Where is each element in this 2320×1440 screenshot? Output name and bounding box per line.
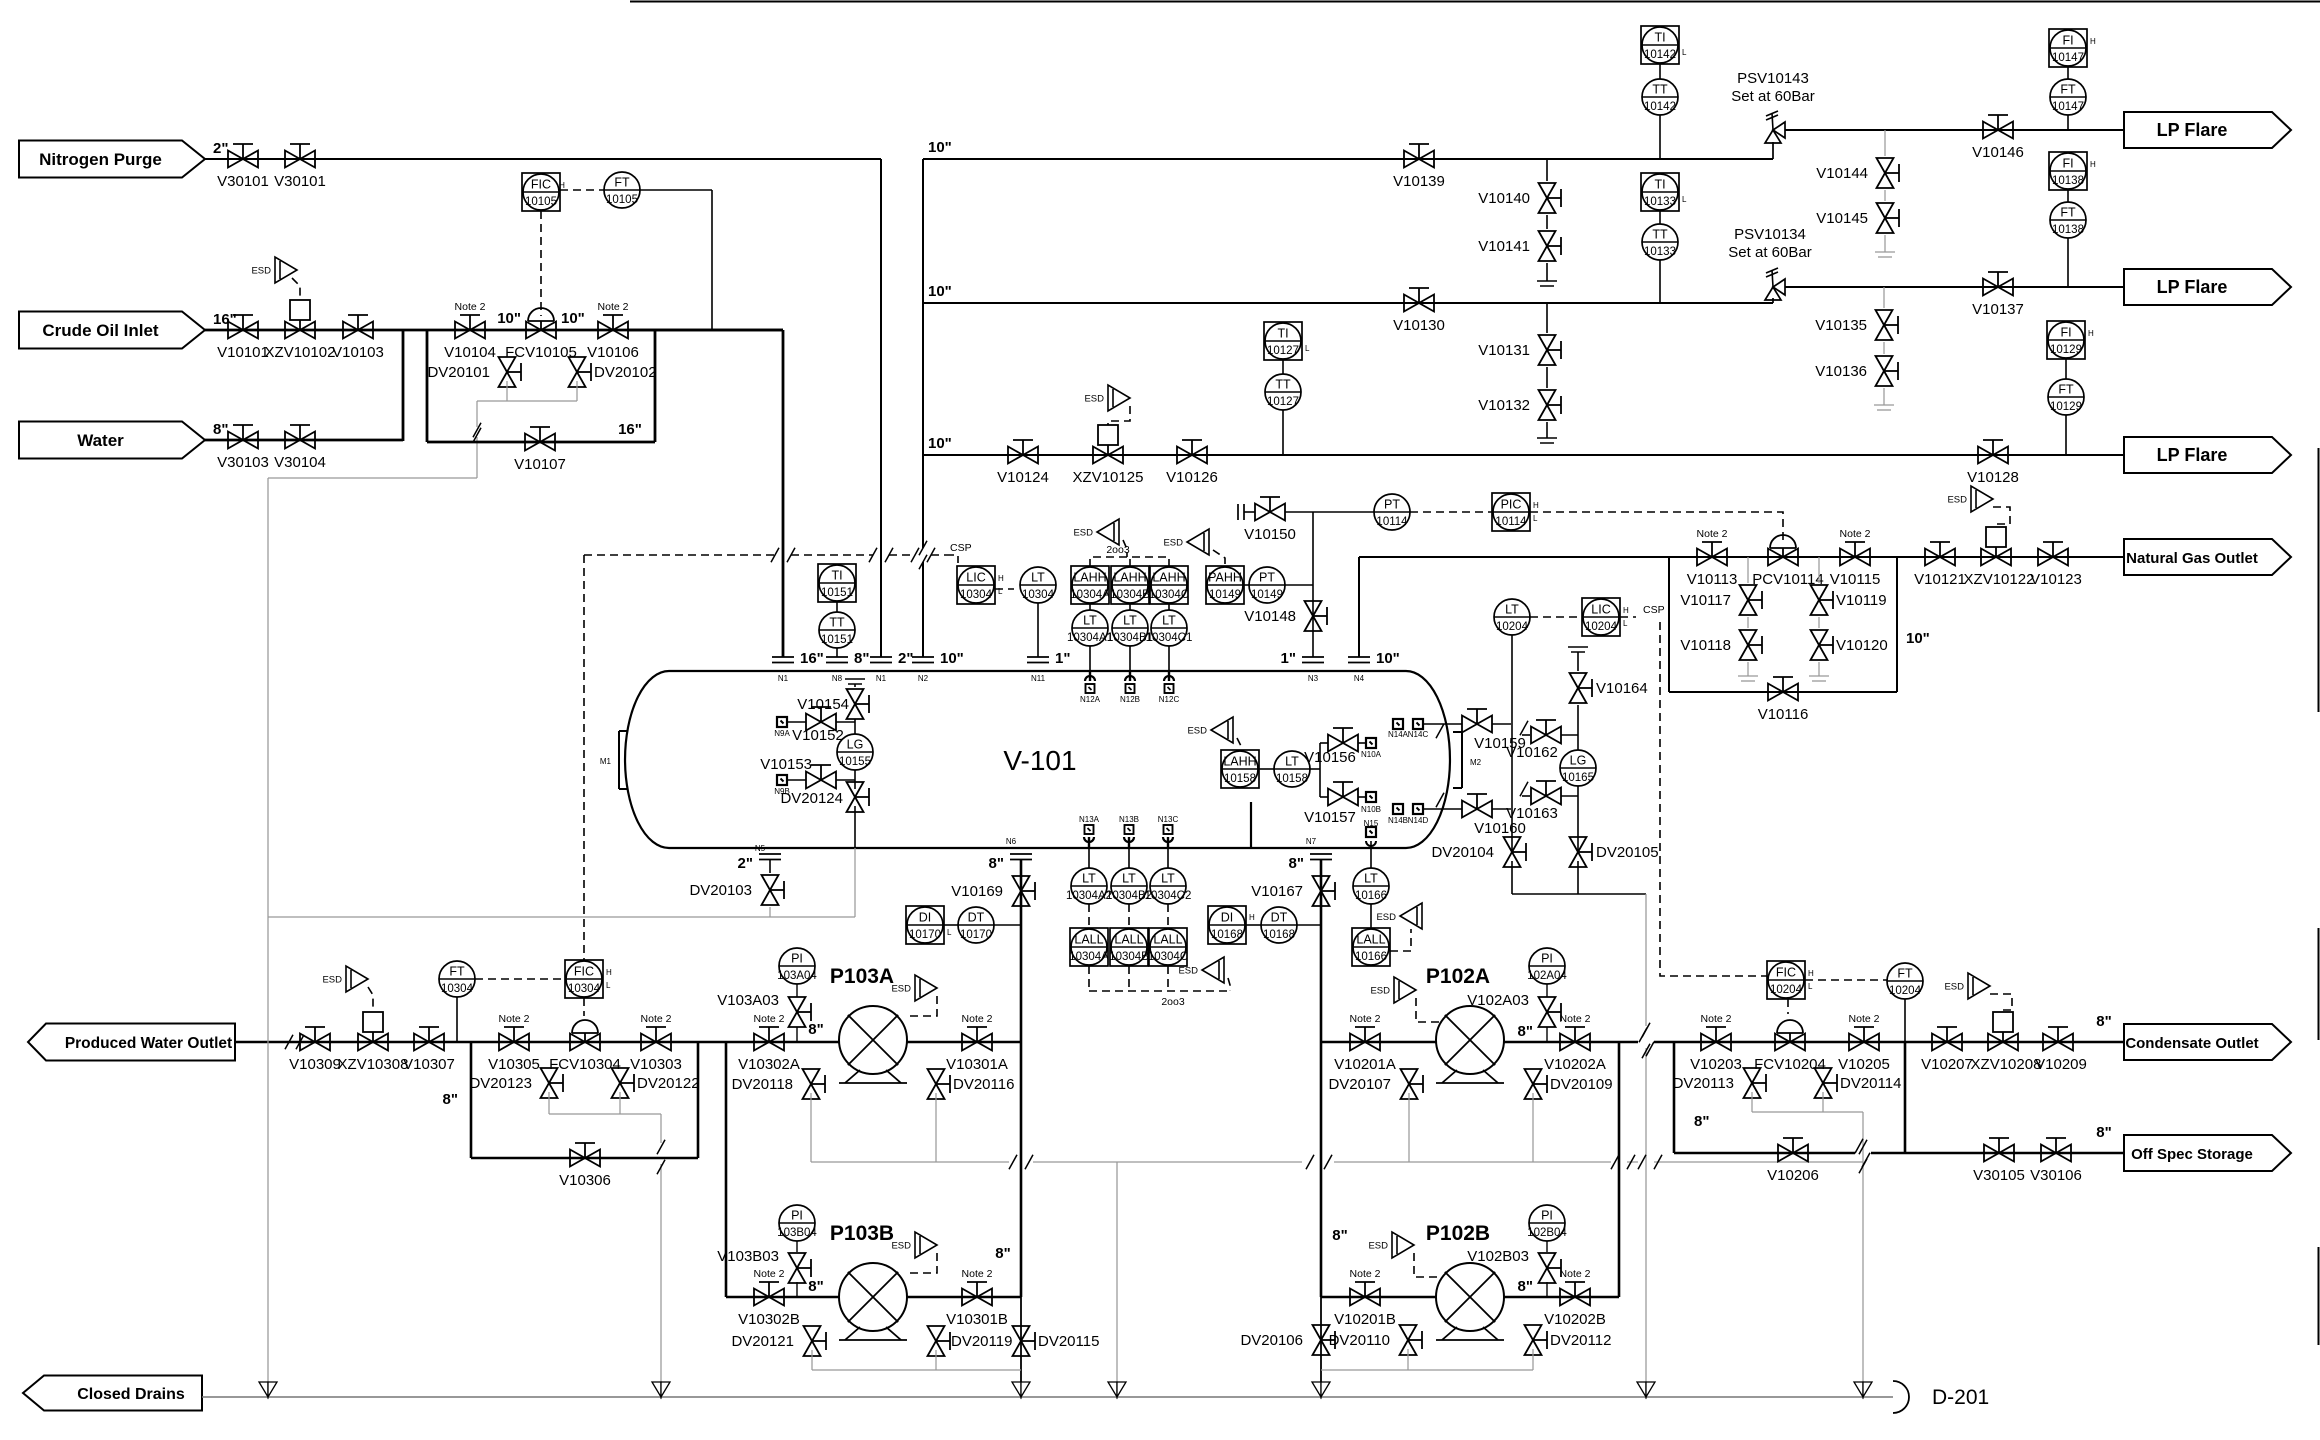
wire rejoin riser to condensate main xyxy=(1904,1042,1907,1153)
svg-text:10149: 10149 xyxy=(1251,589,1283,601)
valve DV20103 xyxy=(762,875,779,890)
svg-text:ESD: ESD xyxy=(1947,495,1967,506)
stub N14D xyxy=(1413,804,1423,814)
nozzle N6 8in flange xyxy=(1010,853,1032,855)
instrument LT10158 xyxy=(1274,751,1310,787)
vessel V-101 shell xyxy=(669,670,1406,672)
svg-text:10204: 10204 xyxy=(1585,621,1618,633)
svg-text:L: L xyxy=(1682,195,1687,204)
valve DV20122 xyxy=(612,1068,629,1083)
instrument LG10155 xyxy=(837,734,873,770)
svg-text:ESD: ESD xyxy=(322,975,342,986)
wire PCV manifold box xyxy=(1668,557,1670,692)
stub N14A xyxy=(1393,719,1403,729)
svg-text:Note 2: Note 2 xyxy=(1701,1013,1732,1025)
wire PT10149 to N3 riser xyxy=(1285,584,1313,586)
svg-text:LAHH: LAHH xyxy=(1152,571,1185,585)
svg-text:V10157: V10157 xyxy=(1304,809,1356,826)
svg-text:XZV10208: XZV10208 xyxy=(1971,1056,2042,1073)
svg-text:LALL: LALL xyxy=(1114,933,1143,947)
flow arrow Produced Water Outlet xyxy=(28,1024,235,1061)
valve V10152 xyxy=(806,714,821,731)
svg-text:V10119: V10119 xyxy=(1836,592,1887,609)
valve V103B03 xyxy=(789,1253,806,1268)
svg-text:H: H xyxy=(2090,160,2096,169)
svg-text:H: H xyxy=(559,181,565,190)
instrument TT10142 xyxy=(1642,79,1678,115)
stub N14C xyxy=(1413,719,1423,729)
svg-text:10": 10" xyxy=(928,435,952,452)
svg-text:ESD: ESD xyxy=(1163,538,1183,549)
svg-text:N11: N11 xyxy=(1031,674,1046,683)
svg-text:V10164: V10164 xyxy=(1596,680,1648,697)
svg-text:LAHH: LAHH xyxy=(1113,571,1146,585)
svg-text:10": 10" xyxy=(1906,630,1930,647)
svg-text:10204: 10204 xyxy=(1496,621,1529,633)
svg-text:Condensate Outlet: Condensate Outlet xyxy=(2125,1035,2258,1052)
svg-text:M2: M2 xyxy=(1470,758,1482,767)
svg-text:10170: 10170 xyxy=(960,929,992,941)
valve V10139 xyxy=(1404,151,1419,168)
instrument DI10168 xyxy=(1208,906,1246,944)
svg-text:10170: 10170 xyxy=(909,929,941,941)
svg-text:V10307: V10307 xyxy=(403,1056,455,1073)
instrument PAHH10149 xyxy=(1206,566,1244,604)
svg-text:ESD: ESD xyxy=(1073,528,1093,539)
svg-text:FCV10304: FCV10304 xyxy=(549,1056,621,1073)
valve V102A03 xyxy=(1539,997,1556,1012)
svg-text:V10118: V10118 xyxy=(1680,637,1731,654)
instrument TI10133 xyxy=(1641,173,1679,211)
svg-text:DV20104: DV20104 xyxy=(1431,844,1494,861)
svg-text:N9A: N9A xyxy=(774,729,790,738)
valve V10207 xyxy=(1932,1034,1947,1051)
valve V10156 xyxy=(1328,735,1343,752)
svg-text:10142: 10142 xyxy=(1644,101,1676,113)
svg-text:10147: 10147 xyxy=(2052,52,2084,64)
wire P102B row xyxy=(1321,1296,1619,1299)
instrument PI103B04 xyxy=(779,1205,815,1241)
valve V10124 xyxy=(1008,447,1023,464)
svg-text:P103B: P103B xyxy=(830,1222,894,1245)
wire crude bypass down-leg xyxy=(426,330,429,442)
svg-text:FT: FT xyxy=(1897,967,1913,981)
valve V30101 a xyxy=(228,151,243,168)
wire condensate bypass / off spec line xyxy=(1674,1152,1855,1155)
svg-text:Note 2: Note 2 xyxy=(1840,528,1871,540)
valve DV20123 xyxy=(541,1068,558,1083)
ESD pilot P103A xyxy=(915,975,937,1001)
svg-text:FT: FT xyxy=(2060,206,2076,220)
svg-text:V10306: V10306 xyxy=(559,1172,611,1189)
svg-text:H: H xyxy=(1623,606,1629,615)
svg-text:ESD: ESD xyxy=(1187,726,1207,737)
valve V10131 xyxy=(1546,303,1548,333)
wire crude line to drop xyxy=(628,329,783,332)
svg-text:N12A: N12A xyxy=(1080,695,1101,704)
valve V10136 xyxy=(1883,342,1885,354)
svg-text:10142: 10142 xyxy=(1644,49,1676,61)
svg-text:ESD: ESD xyxy=(1178,966,1198,977)
svg-text:LT: LT xyxy=(1505,603,1519,617)
instrument TT10127 xyxy=(1265,374,1301,410)
wire produced water main xyxy=(235,1041,726,1044)
wire 10in riser to N2 xyxy=(922,159,924,548)
svg-text:DV20112: DV20112 xyxy=(1550,1332,1611,1349)
svg-text:10129: 10129 xyxy=(2050,344,2082,356)
wire bypass rejoin riser xyxy=(697,1042,700,1158)
svg-text:LT: LT xyxy=(1285,755,1299,769)
wire condensate main xyxy=(1619,1041,1638,1044)
svg-text:TI: TI xyxy=(831,569,842,583)
svg-text:N10A: N10A xyxy=(1361,750,1382,759)
svg-text:V10203: V10203 xyxy=(1690,1056,1742,1073)
svg-text:H: H xyxy=(2088,329,2094,338)
svg-text:PSV10143: PSV10143 xyxy=(1737,70,1809,87)
valve V10137 xyxy=(1983,279,1998,296)
svg-text:10304: 10304 xyxy=(1022,589,1055,601)
svg-text:FIC: FIC xyxy=(1776,966,1796,980)
svg-text:V30103: V30103 xyxy=(217,454,269,471)
valve FCV10204 control valve xyxy=(1775,1034,1790,1051)
wire TT10142 tap xyxy=(1659,115,1661,159)
svg-text:10158: 10158 xyxy=(1276,773,1308,785)
instrument LT10304B2 xyxy=(1128,847,1130,868)
svg-text:10": 10" xyxy=(928,139,952,156)
svg-text:10204: 10204 xyxy=(1770,984,1803,996)
svg-text:FI: FI xyxy=(2062,34,2073,48)
svg-text:8": 8" xyxy=(2096,1013,2111,1030)
valve V10119 xyxy=(1818,557,1820,583)
valve V10117 xyxy=(1747,557,1749,583)
svg-text:V10156: V10156 xyxy=(1304,749,1356,766)
instrument LIC10204 xyxy=(1582,598,1620,636)
svg-text:V10126: V10126 xyxy=(1166,469,1218,486)
valve V10162 xyxy=(1522,734,1530,736)
instrument FI10147 xyxy=(2049,29,2087,67)
valve V10121 xyxy=(1925,549,1940,566)
svg-text:M1: M1 xyxy=(600,757,612,766)
svg-text:10138: 10138 xyxy=(2052,224,2084,236)
ESD pilot P102B xyxy=(1392,1232,1414,1258)
svg-text:V10305: V10305 xyxy=(488,1056,540,1073)
drain tie-in triangle x268 xyxy=(259,1382,268,1397)
instrument TI10127 xyxy=(1264,322,1302,360)
svg-text:V10301A: V10301A xyxy=(946,1056,1008,1073)
svg-text:V10135: V10135 xyxy=(1815,317,1867,334)
svg-text:V10207: V10207 xyxy=(1921,1056,1973,1073)
svg-text:V30104: V30104 xyxy=(274,454,326,471)
wire blowdown row3 10in line xyxy=(923,454,2124,456)
svg-text:V10140: V10140 xyxy=(1478,190,1530,207)
svg-text:10133: 10133 xyxy=(1644,196,1676,208)
svg-text:2": 2" xyxy=(213,140,228,157)
svg-text:DI: DI xyxy=(919,911,932,925)
signal CSP from FIC10304 to LIC10304 xyxy=(584,554,775,556)
nozzle N4 10in flange xyxy=(1348,656,1370,658)
svg-text:Note 2: Note 2 xyxy=(1350,1013,1381,1025)
svg-text:N2: N2 xyxy=(918,674,929,683)
svg-text:2oo3: 2oo3 xyxy=(1161,996,1185,1008)
svg-text:PSV10134: PSV10134 xyxy=(1734,226,1806,243)
svg-text:FT: FT xyxy=(449,965,465,979)
instrument FIC10204 xyxy=(1767,961,1805,999)
wire FT10147 tap xyxy=(2067,115,2069,130)
svg-text:TI: TI xyxy=(1654,178,1665,192)
wire N7 riser to drains xyxy=(1320,1297,1322,1382)
svg-text:DV20106: DV20106 xyxy=(1240,1332,1303,1349)
svg-text:10304C1: 10304C1 xyxy=(1146,632,1193,644)
nozzle stub N13A xyxy=(1088,837,1090,847)
valve FCV10304 control valve xyxy=(570,1034,585,1051)
valve V30101 b xyxy=(285,151,300,168)
valve V10120 xyxy=(1818,617,1820,628)
svg-text:V10137: V10137 xyxy=(1972,301,2024,318)
svg-text:10114: 10114 xyxy=(1376,516,1408,528)
svg-text:LALL: LALL xyxy=(1074,933,1103,947)
svg-text:Note 2: Note 2 xyxy=(455,301,486,313)
wire PI102B04 tap xyxy=(1546,1282,1548,1297)
svg-text:N14B: N14B xyxy=(1388,816,1408,825)
wire P103 pumpB drains xyxy=(811,1350,813,1370)
svg-text:L: L xyxy=(1682,48,1687,57)
svg-text:V10209: V10209 xyxy=(2035,1056,2087,1073)
valve XZV10122 xyxy=(1981,549,1996,566)
svg-text:10151: 10151 xyxy=(821,587,853,599)
drain tie-in triangle x1322 xyxy=(1312,1382,1321,1397)
svg-text:V10107: V10107 xyxy=(514,456,566,473)
wire LT10304B1 to nozzle N12B xyxy=(1129,646,1131,671)
flow arrow Natural Gas Outlet xyxy=(2124,539,2291,575)
svg-text:10304B: 10304B xyxy=(1110,589,1150,601)
vent below V10141 xyxy=(1546,263,1548,281)
svg-text:2": 2" xyxy=(738,855,753,872)
svg-text:Note 2: Note 2 xyxy=(641,1013,672,1025)
svg-text:10304C: 10304C xyxy=(1149,589,1189,601)
svg-text:V10150: V10150 xyxy=(1244,526,1296,543)
instrument LT10304 xyxy=(1020,567,1056,603)
svg-text:V10162: V10162 xyxy=(1506,744,1558,761)
off-page connector D-201 xyxy=(1893,1381,1909,1413)
svg-text:V10106: V10106 xyxy=(587,344,639,361)
wire LT10158 to V10156 V10157 xyxy=(1310,768,1320,770)
instrument TT10151 xyxy=(819,612,855,648)
svg-text:ESD: ESD xyxy=(1084,394,1104,405)
valve V10306 xyxy=(570,1150,585,1167)
instrument PI102B04 xyxy=(1529,1205,1565,1241)
svg-text:DV20110: DV20110 xyxy=(1329,1332,1390,1349)
svg-text:1": 1" xyxy=(1281,650,1296,667)
instrument FIC10304 xyxy=(565,960,603,998)
svg-text:10": 10" xyxy=(1376,650,1400,667)
wire PI103B04 tap xyxy=(796,1282,798,1297)
drain tie-in triangle x1863 xyxy=(1854,1382,1863,1397)
valve DV20102 drain xyxy=(569,357,586,372)
valve DV20114 xyxy=(1815,1068,1832,1083)
valve DV20113 xyxy=(1744,1068,1761,1083)
valve V10118 xyxy=(1747,617,1749,628)
wire LT10204 standpipe xyxy=(1511,635,1513,852)
wire P102A pump drains xyxy=(1408,1093,1410,1162)
instrument TT10133 xyxy=(1642,224,1678,260)
valve V10157 xyxy=(1328,789,1343,806)
svg-text:16": 16" xyxy=(800,650,824,667)
svg-text:8": 8" xyxy=(213,421,228,438)
valve V10146 xyxy=(1983,122,1998,139)
signal FIC10204 to FT10204 xyxy=(1805,979,1887,981)
svg-text:TT: TT xyxy=(1275,378,1291,392)
svg-text:DV20124: DV20124 xyxy=(780,790,843,807)
svg-text:V10123: V10123 xyxy=(2030,571,2082,588)
svg-text:FCV10105: FCV10105 xyxy=(505,344,577,361)
instrument LT10304B1 xyxy=(1112,610,1148,646)
wire DT10168 to N7 riser xyxy=(1297,924,1321,926)
svg-text:DV20105: DV20105 xyxy=(1596,844,1659,861)
valve XZV10102 xyxy=(285,322,300,339)
svg-text:V10101: V10101 xyxy=(217,344,269,361)
svg-text:LT: LT xyxy=(1364,872,1378,886)
svg-text:103A04: 103A04 xyxy=(777,970,817,982)
svg-text:V10117: V10117 xyxy=(1680,592,1731,609)
svg-text:10133: 10133 xyxy=(1644,246,1676,258)
svg-text:V10201A: V10201A xyxy=(1334,1056,1396,1073)
instrument LAHH10304A xyxy=(1071,566,1109,604)
wire P102A pump drain header west xyxy=(1117,1161,1302,1163)
svg-text:V103A03: V103A03 xyxy=(717,992,779,1009)
svg-text:10127: 10127 xyxy=(1267,396,1299,408)
vent below V10145 xyxy=(1884,235,1886,252)
svg-text:10114: 10114 xyxy=(1495,516,1527,528)
flow arrow Condensate Outlet xyxy=(2124,1024,2291,1060)
svg-text:CSP: CSP xyxy=(950,542,972,554)
svg-text:103B04: 103B04 xyxy=(777,1227,817,1239)
wire DT10170 to suction riser xyxy=(994,924,1021,926)
svg-text:Water: Water xyxy=(77,431,124,450)
instrument LT10304C2 xyxy=(1167,847,1169,868)
svg-text:V10103: V10103 xyxy=(332,344,384,361)
svg-text:V10152: V10152 xyxy=(792,727,844,744)
svg-text:10": 10" xyxy=(928,283,952,300)
wire FT10138 tap xyxy=(2067,238,2069,287)
svg-text:N12B: N12B xyxy=(1120,695,1140,704)
valve DV20110 xyxy=(1400,1325,1417,1340)
instrument FT10138 xyxy=(2050,202,2086,238)
svg-text:10304C: 10304C xyxy=(1148,951,1188,963)
svg-text:H: H xyxy=(606,968,612,977)
svg-text:8": 8" xyxy=(1332,1227,1347,1244)
wire closed drains header xyxy=(202,1396,1893,1398)
svg-text:DV20119: DV20119 xyxy=(951,1333,1012,1350)
svg-text:10": 10" xyxy=(940,650,964,667)
svg-text:8": 8" xyxy=(1518,1278,1533,1295)
svg-text:V10132: V10132 xyxy=(1478,397,1530,414)
flow arrow Crude Oil Inlet xyxy=(19,312,205,349)
valve DV20105 xyxy=(1570,837,1587,852)
valve DV20115 xyxy=(1013,1326,1030,1341)
svg-text:N3: N3 xyxy=(1308,674,1319,683)
svg-text:10304B: 10304B xyxy=(1109,951,1149,963)
svg-text:V10104: V10104 xyxy=(444,344,496,361)
svg-text:ESD: ESD xyxy=(1376,912,1396,923)
svg-text:FT: FT xyxy=(2058,383,2074,397)
svg-text:10166: 10166 xyxy=(1355,890,1387,902)
svg-text:Off Spec Storage: Off Spec Storage xyxy=(2131,1146,2253,1163)
svg-text:P103A: P103A xyxy=(830,965,894,988)
svg-text:V10139: V10139 xyxy=(1393,173,1445,190)
wire crude drop to vessel N1 xyxy=(782,330,785,657)
svg-text:TT: TT xyxy=(1652,83,1668,97)
svg-text:FT: FT xyxy=(2060,83,2076,97)
signal FIC10304 to FCV10304 xyxy=(583,998,585,1016)
svg-text:V30101: V30101 xyxy=(274,173,326,190)
wire P103 pumpA drains xyxy=(810,1093,812,1162)
svg-text:H: H xyxy=(1808,969,1814,978)
valve V30103 xyxy=(228,432,243,449)
svg-text:L: L xyxy=(947,928,952,937)
svg-text:102B04: 102B04 xyxy=(1527,1227,1567,1239)
wire produced water bypass xyxy=(470,1042,473,1158)
wire TT10127 tap xyxy=(1282,410,1284,455)
valve V10130 xyxy=(1404,295,1419,312)
instrument LIC10304 xyxy=(957,566,995,604)
wire suction riser to drains xyxy=(1020,1297,1022,1382)
svg-text:V10303: V10303 xyxy=(630,1056,682,1073)
svg-text:10165: 10165 xyxy=(1562,772,1594,784)
wire drains from DV20104 DV20105 xyxy=(1511,861,1513,894)
wire nitrogen purge line xyxy=(205,158,881,160)
svg-text:LIC: LIC xyxy=(1591,603,1610,617)
ESD pilot XZV10122 xyxy=(1971,486,1993,512)
svg-text:V10121: V10121 xyxy=(1914,571,1966,588)
wire P102A row xyxy=(1321,1041,1619,1044)
nozzle N1 16in flange xyxy=(772,656,794,658)
valve V10150 xyxy=(1255,504,1270,521)
svg-text:8": 8" xyxy=(808,1021,823,1038)
stub N14B xyxy=(1393,804,1403,814)
valve DV20104 xyxy=(1504,837,1521,852)
svg-text:V10302A: V10302A xyxy=(738,1056,800,1073)
valve V10116 bypass xyxy=(1768,684,1783,701)
svg-text:Set at 60Bar: Set at 60Bar xyxy=(1731,88,1814,105)
svg-text:Set at 60Bar: Set at 60Bar xyxy=(1728,244,1811,261)
flow arrow Water xyxy=(19,422,205,459)
signal FIC10204 to FCV10204 xyxy=(1787,999,1789,1014)
instrument LALL10304B xyxy=(1128,904,1130,928)
svg-text:8": 8" xyxy=(1289,855,1304,872)
valve V10309 xyxy=(300,1034,315,1051)
svg-text:10204: 10204 xyxy=(1889,985,1922,997)
valve V10144 xyxy=(1884,130,1886,156)
instrument LT10304C1 xyxy=(1151,610,1187,646)
valve V10169 xyxy=(1013,876,1030,891)
ESD pilot LAHH10158 xyxy=(1211,717,1233,743)
svg-text:FI: FI xyxy=(2060,326,2071,340)
wire natural gas outlet line xyxy=(1359,556,2124,558)
instrument FI10138 xyxy=(2049,152,2087,190)
valve V102B03 xyxy=(1539,1253,1556,1268)
svg-text:PT: PT xyxy=(1259,571,1275,585)
stub N10A xyxy=(1358,742,1366,744)
wire N14C sample line xyxy=(1423,723,1462,725)
svg-text:PIC: PIC xyxy=(1501,498,1522,512)
valve V10163 xyxy=(1522,795,1530,797)
svg-text:8": 8" xyxy=(854,650,869,667)
wire PI103A04 tap xyxy=(796,1027,798,1042)
nozzle stub N15 xyxy=(1366,827,1376,837)
svg-text:8": 8" xyxy=(808,1278,823,1295)
instrument LAHH10158 xyxy=(1221,750,1259,788)
svg-text:XZV10308: XZV10308 xyxy=(338,1056,409,1073)
